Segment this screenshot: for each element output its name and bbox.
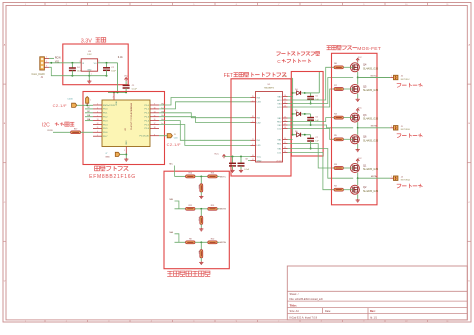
- svg-text:P0.5: P0.5: [103, 128, 108, 130]
- wire R15 to ground: [200, 192, 202, 195]
- net stub MA: [85, 118, 93, 121]
- svg-text:MOTB: MOTB: [220, 209, 227, 211]
- label C to diode: [277, 59, 311, 64]
- svg-text:J6: J6: [401, 76, 403, 78]
- svg-text:C7: C7: [315, 137, 317, 139]
- svg-text:13: 13: [284, 106, 286, 108]
- wire P1.5 to LN1: [159, 125, 251, 146]
- section box control MCU: [83, 92, 165, 165]
- svg-text:2: 2: [113, 97, 114, 99]
- svg-text:C5: C5: [315, 95, 317, 97]
- global label C2D flag: [167, 134, 178, 140]
- diode D4: [293, 91, 311, 95]
- resistor R10: [208, 238, 217, 243]
- driver bottom pin numbers red: [277, 160, 283, 162]
- svg-text:P0.0: P0.0: [103, 109, 108, 111]
- net label MB: [170, 199, 174, 201]
- svg-text:P1.2: P1.2: [145, 113, 150, 115]
- regulator U3 pin numbers: [79, 61, 99, 75]
- svg-text:MC: MC: [169, 164, 173, 166]
- svg-text:MA: MA: [170, 231, 174, 234]
- svg-text:R12: R12: [198, 217, 200, 220]
- svg-text:MOTC: MOTC: [220, 176, 227, 178]
- svg-text:P0.1: P0.1: [103, 113, 108, 115]
- label MOTOR-C: [401, 76, 411, 81]
- label diode D5: [295, 110, 297, 112]
- wire MCU GND down: [125, 153, 127, 158]
- bootstrap capacitor C7: [307, 135, 314, 150]
- driver left pins: [251, 96, 262, 162]
- connector J1 pin stubs: [44, 57, 49, 68]
- svg-text:2: 2: [252, 100, 253, 102]
- wire into R17: [53, 131, 71, 133]
- wire VB1 to diode row: [288, 134, 294, 140]
- label Q6: [363, 136, 379, 143]
- wire LO3 to R7: [288, 89, 335, 107]
- wire R9 to ground: [200, 258, 202, 261]
- wire R4 to gate: [343, 117, 352, 119]
- wire P1.3 to LN2: [159, 117, 251, 123]
- svg-text:3: 3: [252, 121, 253, 123]
- title block text File: [290, 297, 324, 301]
- label C8 C9 values: [244, 159, 250, 172]
- label Conn_01x03 J1: [32, 74, 46, 79]
- resistor R14: [186, 173, 195, 178]
- wire R16 to label: [217, 175, 219, 177]
- resistor R17: [71, 129, 81, 134]
- svg-text:R13: R13: [211, 205, 214, 207]
- red label C2-1/F left: [53, 103, 68, 108]
- svg-text:SL4A05_G35: SL4A05_G35: [363, 89, 379, 92]
- svg-text:28: 28: [252, 116, 254, 118]
- capacitor C2: [103, 63, 110, 76]
- wire node C to motor connector: [358, 77, 391, 79]
- svg-text:I2C: I2C: [42, 122, 50, 128]
- VCC feed label and wire: [283, 76, 293, 135]
- net label RCIN at R17: [48, 130, 53, 132]
- label FET gate driver: [224, 72, 287, 79]
- svg-text:1: 1: [391, 176, 392, 178]
- net label MOTA: [371, 175, 377, 178]
- svg-text:Conn_01x03: Conn_01x03: [32, 74, 46, 76]
- capacitor C8: [229, 157, 236, 170]
- wire HO1 to R3: [288, 144, 335, 169]
- svg-text:1: 1: [97, 115, 98, 117]
- ground symbol R9: [199, 261, 203, 264]
- svg-text:SL4A05_G35: SL4A05_G35: [363, 67, 379, 70]
- MCU left pins: [93, 104, 116, 138]
- label diode D6: [295, 131, 297, 133]
- title block Size and Date: [290, 310, 332, 313]
- wire P1.1 to LN3: [159, 102, 251, 109]
- wire VS1 to phase A: [288, 149, 354, 179]
- svg-text:18: 18: [154, 127, 156, 129]
- label denkikaku kenshutsu kairo: [167, 271, 210, 276]
- svg-text:27: 27: [252, 139, 254, 141]
- net label MA: [170, 231, 174, 234]
- svg-text:17: 17: [284, 124, 286, 126]
- svg-text:1: 1: [46, 57, 47, 59]
- svg-text:P0.6: P0.6: [103, 132, 108, 134]
- svg-text:R14: R14: [189, 173, 192, 175]
- wire VS3 to phase C: [288, 78, 354, 104]
- title block Rev: [370, 310, 378, 319]
- svg-text:C2-1/F: C2-1/F: [53, 103, 68, 108]
- junction dots on gnd rail: [71, 75, 107, 77]
- svg-text:22: 22: [284, 147, 286, 149]
- svg-text:MOTOR-A: MOTOR-A: [401, 179, 411, 182]
- ground symbol R15: [199, 195, 203, 198]
- svg-text:GND: GND: [87, 69, 92, 71]
- svg-text:C2CK: C2CK: [67, 99, 73, 101]
- svg-text:3.3V: 3.3V: [81, 38, 92, 44]
- svg-text:MOS-FET: MOS-FET: [357, 46, 381, 52]
- wire R6 to gate: [343, 66, 352, 68]
- svg-text:9: 9: [154, 104, 155, 106]
- label 3.3V dengen: [81, 38, 106, 45]
- label shutsuryoku power MOS-FET: [327, 45, 382, 51]
- bootstrap capacitor C6: [307, 114, 314, 126]
- svg-text:P0.7: P0.7: [103, 136, 108, 138]
- ground symbol under C9: [239, 169, 243, 172]
- net label RCIN: [55, 57, 61, 59]
- MCU U2 body: [102, 100, 150, 147]
- section box FET gate driver: [231, 79, 291, 176]
- section box bootstrap: [291, 72, 323, 157]
- power symbol VCC phase B: [356, 107, 362, 112]
- wire Q5 source to ground: [357, 94, 359, 99]
- label Q4: [363, 64, 379, 71]
- wire R14 to junction: [195, 175, 208, 177]
- svg-text:VCC: VCC: [214, 154, 219, 156]
- transistor Q5 low side: [350, 85, 359, 94]
- power flag at MCU gnd: [115, 152, 126, 156]
- svg-text:R16: R16: [211, 173, 214, 175]
- svg-text:Title:: Title:: [290, 303, 297, 307]
- regulator U3 labels: [87, 51, 92, 56]
- label C1 0.1uF: [132, 85, 138, 90]
- svg-text:SL4A05_G35: SL4A05_G35: [363, 118, 379, 121]
- svg-text:15: 15: [284, 117, 286, 119]
- svg-text:29: 29: [252, 96, 254, 98]
- wire P1.4 to IN1: [159, 121, 251, 141]
- capacitor C9: [238, 157, 245, 170]
- wire VCC to Q1 drain: [357, 162, 359, 165]
- wire MB to R11: [175, 208, 186, 210]
- label GND near flag: [105, 153, 110, 158]
- wire VB3 to diode row: [288, 92, 294, 97]
- svg-text:P0.2: P0.2: [103, 117, 108, 119]
- resistor R12 divider: [198, 209, 203, 225]
- wire P1.0/C2D to flag: [159, 135, 167, 137]
- svg-text:2: 2: [46, 61, 47, 63]
- resistor R16: [208, 173, 217, 178]
- wire U3 VO to 3.3v corner: [98, 62, 118, 64]
- svg-text:R11: R11: [189, 205, 192, 207]
- resistor R11: [186, 205, 195, 210]
- svg-text:2: 2: [97, 108, 98, 110]
- section box power MOSFETs: [332, 53, 378, 205]
- wire R13 to label: [217, 208, 219, 210]
- section box 3.3V power supply: [63, 44, 128, 85]
- wire U3 GND pin: [88, 71, 90, 76]
- section box angle detection: [164, 171, 229, 269]
- svg-text:11: 11: [97, 127, 99, 129]
- svg-text:17: 17: [154, 123, 156, 125]
- svg-text:RCIN: RCIN: [48, 130, 53, 132]
- wire VS2 to phase B: [288, 125, 354, 128]
- wire R3 to gate: [343, 167, 352, 169]
- wire P1.0 to IN3: [159, 98, 251, 106]
- svg-text:3: 3: [97, 111, 98, 113]
- motor connector J phase B: [390, 126, 398, 130]
- wire J1 pin1 RCIN: [49, 57, 54, 59]
- wire node B to motor connector: [358, 127, 391, 129]
- wire R17 to P0.6: [81, 131, 93, 133]
- wire HO2 to R4: [288, 118, 335, 122]
- svg-text:SL4A05_G35: SL4A05_G35: [363, 168, 379, 171]
- svg-text:EFM8BB21F16G: EFM8BB21F16G: [89, 174, 136, 180]
- label C4 10uF: [77, 67, 82, 72]
- power symbol VCC phase A: [356, 158, 362, 163]
- svg-text:KiCad E.D.A. kicad 7.0.8: KiCad E.D.A. kicad 7.0.8: [290, 316, 318, 319]
- svg-text:Date:: Date:: [325, 310, 331, 313]
- transistor Q1 high side: [350, 164, 359, 173]
- power symbol VCC near C1: [124, 76, 128, 82]
- wire R5 to gate: [343, 138, 352, 140]
- svg-text:MOTA: MOTA: [220, 241, 226, 244]
- svg-text:J5: J5: [401, 126, 403, 128]
- svg-text:RCIN: RCIN: [55, 57, 61, 59]
- svg-text:J5: J5: [174, 134, 176, 136]
- resistor R2 gate low: [334, 186, 343, 192]
- svg-text:23: 23: [284, 151, 286, 153]
- bootstrap capacitor C5: [307, 93, 314, 105]
- ground symbol MCU: [124, 158, 128, 161]
- svg-text:GND: GND: [105, 156, 110, 158]
- ground symbol phase C: [356, 98, 360, 101]
- driver GND pin wire: [248, 160, 251, 162]
- svg-text:1: 1: [391, 76, 392, 78]
- svg-text:21: 21: [284, 142, 286, 144]
- transistor Q3 high side: [350, 113, 359, 122]
- net stub VC: [85, 107, 93, 109]
- resistor R13: [208, 205, 217, 210]
- wire VCC to driver: [224, 156, 251, 158]
- svg-text:P1.0: P1.0: [145, 105, 150, 107]
- wire MA to R8: [175, 241, 186, 243]
- svg-text:0.1uF: 0.1uF: [132, 89, 138, 91]
- driver right pins: [277, 95, 288, 154]
- resistor R3 gate high: [334, 164, 343, 170]
- wire R11 to junction: [195, 208, 208, 210]
- svg-text:P1.3: P1.3: [145, 117, 150, 119]
- wire VDD rail on MCU box top: [108, 91, 127, 93]
- ground symbol below U3: [87, 76, 91, 84]
- regulator U3 body: [81, 59, 97, 71]
- label Q1: [363, 164, 379, 171]
- net label 3.3v: [118, 55, 124, 59]
- wire J1 pin2 to regulator VI: [49, 62, 81, 64]
- wire VCC to Q4 drain: [357, 61, 359, 64]
- wire R2 to gate: [343, 189, 352, 191]
- svg-text:VDD: VDD: [115, 101, 117, 106]
- svg-text:P1.5: P1.5: [145, 124, 150, 126]
- capacitor C1 0.1uF: [123, 81, 130, 92]
- net label MOTB: [371, 126, 377, 128]
- label MOTOR-A: [401, 176, 411, 181]
- title block Title: [290, 303, 297, 307]
- wire MC to R14: [175, 175, 186, 177]
- svg-text:MOTOR-C: MOTOR-C: [401, 79, 411, 81]
- wire J1 pin3 to ground rail: [49, 67, 107, 75]
- MCU part number vertical text: [124, 103, 132, 132]
- svg-text:C2-1/F: C2-1/F: [167, 142, 182, 147]
- wire Q6 source to ground: [357, 144, 359, 149]
- label Q2: [363, 186, 379, 193]
- resistor R8: [186, 238, 195, 243]
- svg-text:C8: C8: [245, 159, 247, 161]
- svg-text:4: 4: [97, 135, 98, 137]
- net label MOTB: [220, 209, 227, 211]
- svg-text:D5: D5: [295, 110, 297, 112]
- svg-text:MOTOR-B: MOTOR-B: [401, 129, 411, 131]
- label bootstrap-yo: [276, 51, 319, 55]
- title block kicad version: [290, 316, 318, 319]
- net stub MC: [85, 111, 93, 113]
- svg-text:MB: MB: [170, 199, 174, 201]
- wire P1.2 to IN2: [159, 113, 251, 118]
- label motor-e phase C: [397, 83, 423, 88]
- net label MC: [169, 164, 173, 166]
- svg-text:D4: D4: [295, 89, 297, 91]
- power symbol VCC driver: [214, 154, 225, 159]
- MCU right pins: [140, 104, 159, 138]
- svg-text:20: 20: [284, 138, 286, 140]
- net label MOTC: [220, 176, 227, 178]
- title block text Sheet: [290, 292, 299, 296]
- svg-text:R17: R17: [74, 129, 77, 131]
- wire node C to Q5 drain: [357, 78, 359, 85]
- wire MA feed: [175, 234, 179, 243]
- wire HO3 to R6: [288, 67, 335, 100]
- net label VS1: [55, 61, 60, 63]
- svg-text:12: 12: [284, 102, 286, 104]
- wire Q4 source to node C: [357, 72, 359, 79]
- svg-text:10uF: 10uF: [111, 70, 116, 72]
- svg-text:3: 3: [124, 150, 125, 152]
- svg-text:R10: R10: [211, 238, 214, 240]
- svg-text:24: 24: [252, 155, 254, 157]
- svg-text:P1.1: P1.1: [145, 109, 150, 111]
- svg-text:VCC: VCC: [257, 156, 262, 158]
- capacitor C4: [69, 63, 76, 76]
- svg-text:16: 16: [154, 119, 156, 121]
- svg-text:SL4A05_G35: SL4A05_G35: [363, 139, 379, 142]
- label EFM8BB21F16G: [89, 174, 136, 180]
- net label MOTC: [371, 75, 377, 77]
- svg-text:16: 16: [284, 120, 286, 122]
- svg-text:File: e0m05-ESC1.kicad_sch: File: e0m05-ESC1.kicad_sch: [290, 297, 324, 301]
- diode D6: [293, 133, 311, 137]
- regulator U3 pin names: [82, 63, 97, 71]
- svg-text:C6: C6: [315, 116, 317, 118]
- transistor Q2 low side: [350, 185, 359, 194]
- svg-text:Rev:: Rev:: [370, 310, 376, 313]
- svg-text:D6: D6: [295, 131, 297, 133]
- svg-text:4: 4: [252, 144, 253, 146]
- global label C2CK flag: [67, 99, 76, 108]
- svg-text:P1.6: P1.6: [145, 128, 150, 130]
- svg-text:Size: A4: Size: A4: [290, 310, 300, 313]
- label MOTOR-B: [401, 126, 411, 131]
- svg-text:1: 1: [391, 126, 392, 128]
- svg-text:21 11 7: 21 11 7: [277, 160, 283, 162]
- label Q3: [363, 114, 379, 121]
- label diode D4: [295, 89, 297, 91]
- MCU bottom GND pin: [124, 141, 126, 155]
- label C5 1uF: [315, 95, 319, 101]
- svg-text:3: 3: [46, 66, 47, 68]
- svg-text:11: 11: [284, 99, 286, 101]
- power symbol VCC phase C: [356, 57, 362, 62]
- svg-text:5: 5: [97, 104, 98, 106]
- label Q5: [363, 85, 379, 92]
- svg-text:MOTA: MOTA: [371, 175, 377, 178]
- svg-text:1: 1: [91, 73, 92, 75]
- motor connector J phase A: [390, 176, 398, 180]
- svg-text:3.3V: 3.3V: [87, 54, 92, 56]
- svg-text:2: 2: [90, 100, 91, 102]
- resistor R4 gate high: [334, 114, 343, 120]
- wire diode row3 to feed top: [305, 72, 320, 93]
- svg-text:P1.4: P1.4: [145, 120, 150, 122]
- svg-text:GND: GND: [124, 141, 126, 146]
- wire Q3 source to node B: [357, 122, 359, 129]
- wire node A to Q2 drain: [357, 178, 359, 185]
- driver U1 body: [256, 92, 283, 163]
- wire C2CK to RSTb pin: [77, 104, 93, 106]
- svg-text:C2D: C2D: [174, 138, 178, 140]
- svg-text:R15: R15: [198, 185, 200, 188]
- wire R8 to junction: [195, 241, 208, 243]
- resistor R5 gate low: [334, 135, 343, 141]
- diode D5: [293, 112, 311, 116]
- label motor-e phase B: [397, 133, 423, 138]
- title block grid: [287, 266, 467, 320]
- svg-text:14: 14: [154, 111, 156, 113]
- svg-text:TB6286FG: TB6286FG: [264, 87, 275, 89]
- ground symbol under C8: [230, 169, 234, 172]
- wire Q1 source to node A: [357, 173, 359, 180]
- wire node A to motor connector: [358, 177, 391, 179]
- svg-text:VCC: VCC: [283, 76, 288, 78]
- resistor R6 gate high: [334, 63, 343, 69]
- connector J1 body: [40, 57, 45, 70]
- svg-text:6: 6: [97, 131, 98, 133]
- svg-text:12: 12: [97, 123, 99, 125]
- ground symbol R12: [199, 228, 203, 231]
- svg-text:13: 13: [97, 119, 99, 121]
- svg-text:8: 8: [154, 134, 155, 136]
- label C6 1uF: [315, 116, 319, 122]
- resistor R9 divider: [198, 242, 203, 258]
- svg-text:P0.4: P0.4: [103, 124, 108, 126]
- wire R12 to ground: [200, 224, 202, 227]
- label seigyo maikon: [95, 166, 129, 171]
- svg-text:R8: R8: [189, 238, 191, 240]
- wire R10 to label: [217, 241, 219, 243]
